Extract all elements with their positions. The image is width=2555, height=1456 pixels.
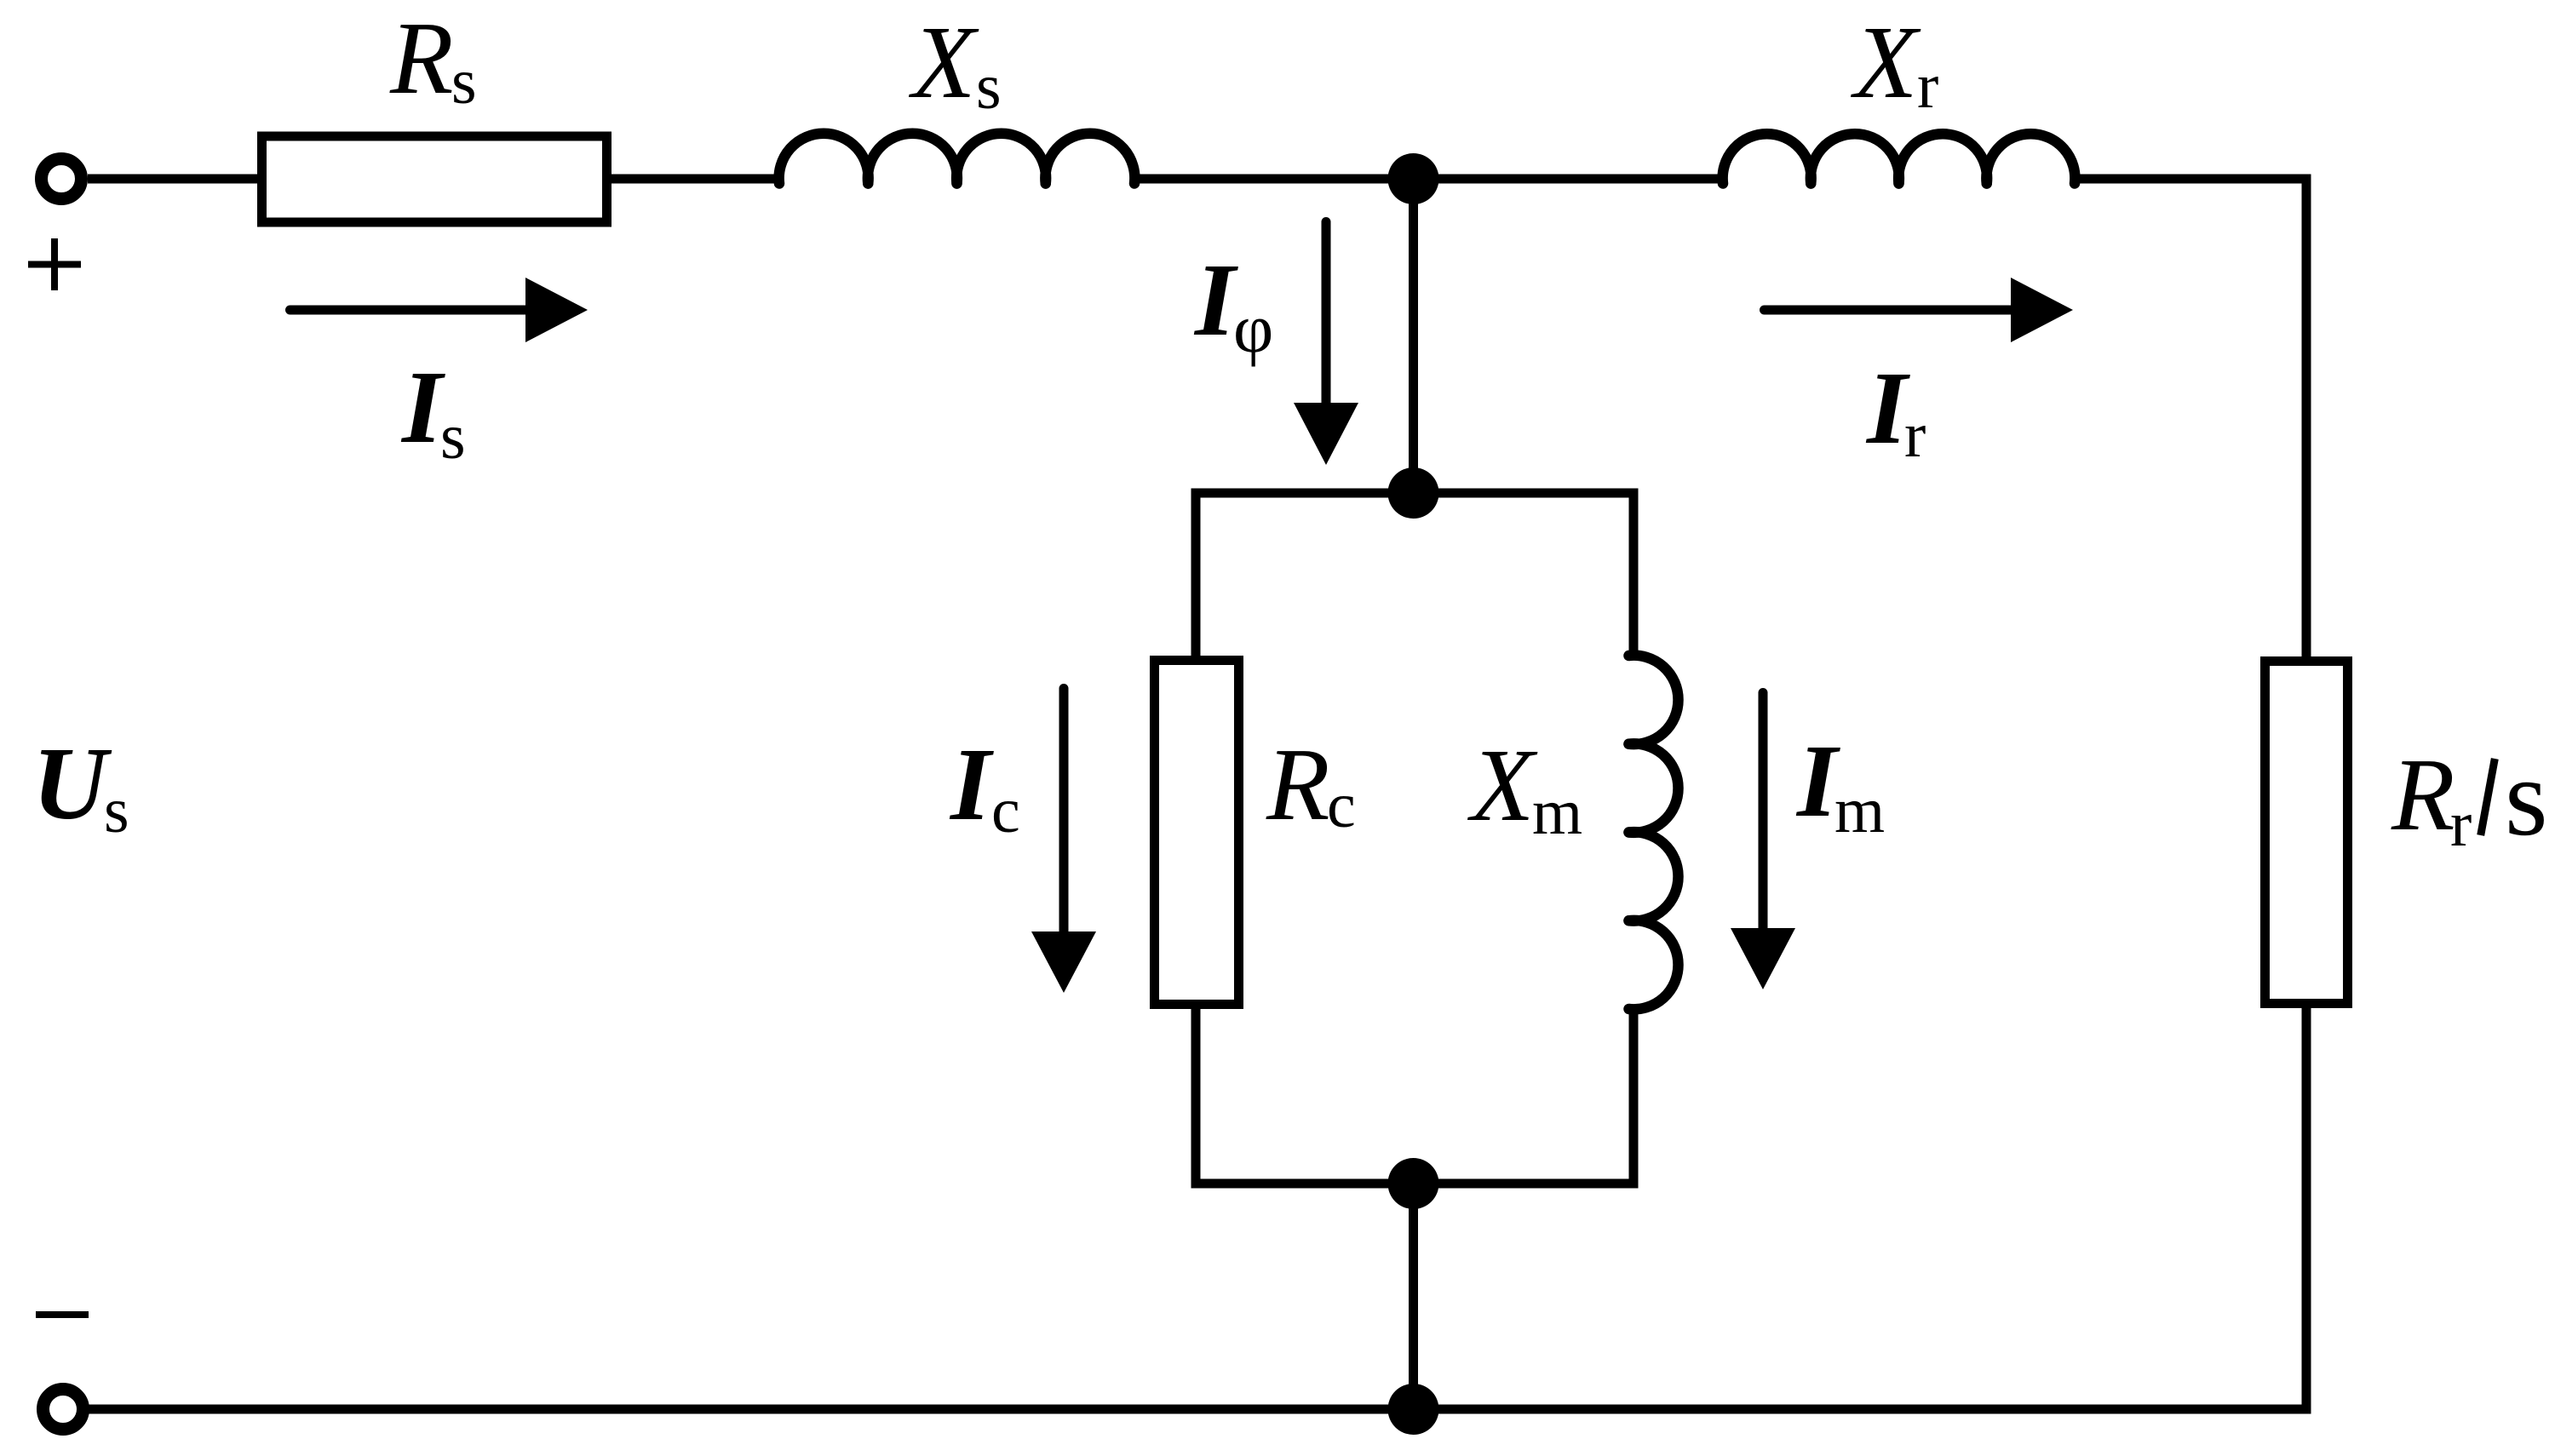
- svg-text:X: X: [1850, 5, 1921, 120]
- svg-text:I: I: [400, 350, 445, 465]
- svg-text:φ: φ: [1233, 289, 1273, 367]
- svg-text:r: r: [1904, 399, 1926, 471]
- svg-text:R: R: [389, 1, 454, 116]
- svg-text:s: s: [2505, 737, 2548, 859]
- svg-text:R: R: [2391, 737, 2455, 852]
- svg-text:r: r: [2450, 788, 2472, 860]
- svg-text:I: I: [949, 727, 994, 842]
- svg-text:X: X: [908, 5, 979, 120]
- svg-text:s: s: [440, 401, 466, 473]
- svg-text:I: I: [1193, 243, 1238, 358]
- svg-text:m: m: [1532, 777, 1582, 848]
- svg-text:m: m: [1834, 775, 1885, 846]
- svg-text:s: s: [451, 46, 477, 118]
- svg-text:s: s: [976, 51, 1002, 123]
- svg-text:c: c: [1327, 770, 1356, 841]
- svg-text:c: c: [991, 775, 1020, 846]
- svg-text:R: R: [1266, 727, 1330, 842]
- svg-text:U: U: [32, 726, 112, 841]
- svg-text:X: X: [1467, 728, 1538, 843]
- svg-text:s: s: [104, 775, 129, 846]
- svg-text:r: r: [1917, 50, 1938, 122]
